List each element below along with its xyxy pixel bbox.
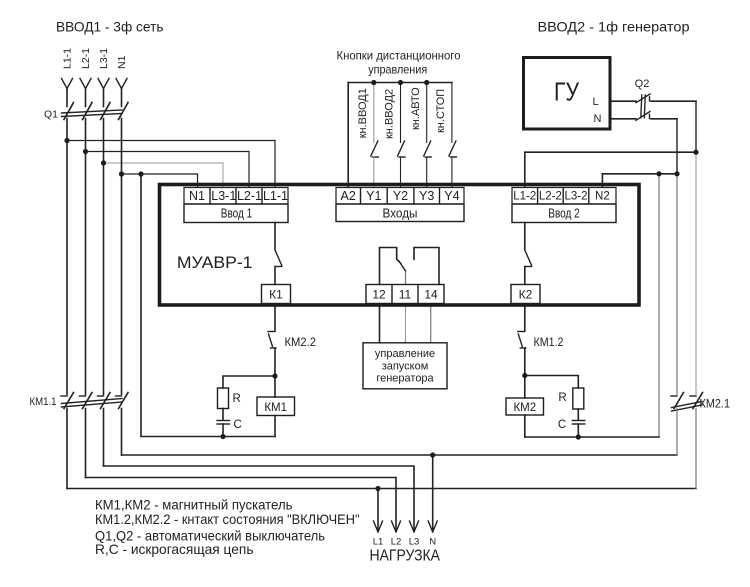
svg-text:R,C - искрогасящая цепь: R,C - искрогасящая цепь xyxy=(95,541,254,557)
svg-text:Y3: Y3 xyxy=(419,189,434,203)
svg-text:Входы: Входы xyxy=(383,207,418,221)
svg-text:L1-1: L1-1 xyxy=(62,48,74,69)
svg-text:L1: L1 xyxy=(373,537,384,548)
svg-text:Y4: Y4 xyxy=(444,189,459,203)
svg-text:КМ2: КМ2 xyxy=(513,402,536,414)
svg-text:Q1: Q1 xyxy=(44,109,58,121)
svg-text:К2: К2 xyxy=(519,288,533,302)
svg-text:Q2: Q2 xyxy=(635,78,650,90)
svg-text:ВВОД2 - 1ф генератор: ВВОД2 - 1ф генератор xyxy=(538,19,690,35)
svg-text:L2: L2 xyxy=(391,537,402,548)
svg-text:запуском: запуском xyxy=(382,361,429,373)
svg-text:L: L xyxy=(592,96,598,108)
svg-text:ВВОД1 - 3ф сеть: ВВОД1 - 3ф сеть xyxy=(56,19,164,35)
svg-text:КМ1.2: КМ1.2 xyxy=(534,335,564,349)
svg-text:генератора: генератора xyxy=(376,373,434,385)
svg-text:L2-1: L2-1 xyxy=(237,189,262,203)
svg-text:N: N xyxy=(429,537,436,548)
svg-text:управление: управление xyxy=(375,348,435,360)
svg-text:12: 12 xyxy=(372,288,386,302)
svg-text:Ввод 1: Ввод 1 xyxy=(221,207,253,221)
svg-text:Кнопки дистанционного: Кнопки дистанционного xyxy=(337,49,461,63)
svg-text:кн.ВВОД2: кн.ВВОД2 xyxy=(384,89,396,139)
svg-text:14: 14 xyxy=(424,288,438,302)
svg-text:A2: A2 xyxy=(341,189,356,203)
svg-text:кн.АВТО: кн.АВТО xyxy=(410,87,422,130)
svg-text:КМ1: КМ1 xyxy=(264,402,287,414)
svg-text:Ввод 2: Ввод 2 xyxy=(548,207,580,221)
svg-text:L1-2: L1-2 xyxy=(513,191,536,203)
svg-text:L1-1: L1-1 xyxy=(263,189,288,203)
svg-text:КМ2.1: КМ2.1 xyxy=(700,399,731,411)
svg-text:C: C xyxy=(558,419,566,431)
svg-text:К1: К1 xyxy=(269,288,283,302)
svg-text:КМ2.2: КМ2.2 xyxy=(285,335,317,349)
svg-text:L3-1: L3-1 xyxy=(98,48,110,69)
svg-text:N1: N1 xyxy=(189,189,205,203)
svg-text:11: 11 xyxy=(399,288,412,302)
svg-text:N1: N1 xyxy=(116,55,128,69)
svg-text:L3-1: L3-1 xyxy=(211,189,236,203)
svg-text:L2-2: L2-2 xyxy=(539,191,562,203)
svg-text:C: C xyxy=(234,419,242,431)
svg-text:кн.ВВОД1: кн.ВВОД1 xyxy=(357,88,369,138)
svg-text:R: R xyxy=(558,392,566,404)
svg-text:ГУ: ГУ xyxy=(554,77,579,107)
svg-text:L3: L3 xyxy=(409,537,420,548)
svg-text:МУАВР-1: МУАВР-1 xyxy=(177,253,253,272)
svg-text:R: R xyxy=(233,393,241,405)
svg-text:Y2: Y2 xyxy=(393,189,408,203)
svg-text:N2: N2 xyxy=(595,191,610,203)
svg-text:кн.СТОП: кн.СТОП xyxy=(435,89,447,133)
svg-text:L3-2: L3-2 xyxy=(564,191,587,203)
svg-text:КМ1.1: КМ1.1 xyxy=(30,396,57,408)
svg-text:управления: управления xyxy=(368,63,427,77)
svg-text:КМ1.2,КМ2.2 - кнтакт состояния: КМ1.2,КМ2.2 - кнтакт состояния "ВКЛЮЧЕН" xyxy=(95,511,360,527)
svg-text:L2-1: L2-1 xyxy=(80,48,92,69)
svg-text:НАГРУЗКА: НАГРУЗКА xyxy=(370,548,441,565)
svg-text:Y1: Y1 xyxy=(366,189,381,203)
svg-text:N: N xyxy=(594,113,602,125)
